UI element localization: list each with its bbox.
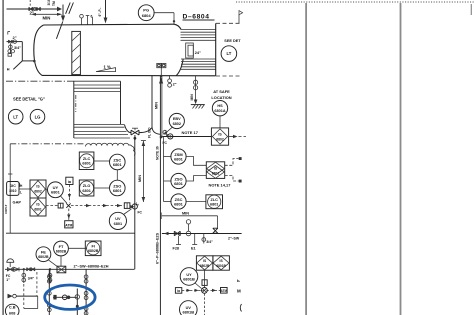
label NOTE 36 rotated (156, 146, 160, 160)
wire blowdown line (16, 296, 37, 309)
svg-text:6801: 6801 (174, 201, 184, 206)
wire sample cross line (53, 295, 77, 300)
svg-text:IS: IS (218, 133, 222, 137)
valve gate small (9, 40, 17, 43)
wire drain header (162, 232, 242, 236)
strainer box (57, 266, 66, 273)
dimension MIN vertical (138, 141, 146, 203)
svg-text:D–6804: D–6804 (183, 14, 210, 21)
svg-text:H: H (20, 184, 23, 188)
svg-text:AT SAFE: AT SAFE (213, 89, 230, 94)
svg-text:6"–P–6808B–E2S: 6"–P–6808B–E2S (155, 232, 159, 264)
svg-text:ia: ia (68, 180, 72, 184)
svg-text:6802B: 6802B (200, 264, 210, 268)
box ATM bottom (220, 288, 227, 294)
column separator line 2 (400, 3, 402, 315)
boot flange stack top (74, 81, 121, 91)
instrument LG (30, 109, 45, 124)
svg-text:6802B: 6802B (88, 249, 99, 253)
valve EBV ball (168, 134, 173, 139)
wire boot outlet curve (125, 125, 153, 133)
instrument FT 6802B (54, 241, 69, 256)
svg-text:ZLC: ZLC (211, 198, 219, 202)
valve ball pair b (8, 50, 15, 53)
relay IS 6802 bottom (196, 256, 213, 270)
right edge tick (470, 4, 472, 15)
instrument UY 6801 bottom (180, 268, 201, 289)
svg-text:FI: FI (92, 245, 95, 249)
relay ZLO 6801 (79, 180, 94, 196)
drain to grade (190, 76, 198, 104)
annotation blue ellipse (45, 285, 95, 309)
instrument ZSO 6801 left (110, 180, 126, 196)
svg-text:6801: 6801 (82, 162, 90, 166)
svg-text:6801B: 6801B (216, 264, 226, 268)
svg-text:3/4": 3/4" (206, 240, 213, 244)
instrument UV 6801 (109, 209, 131, 230)
svg-text:IS: IS (36, 203, 40, 207)
svg-text:3010: 3010 (9, 189, 17, 193)
instrument EBV 6802 (163, 113, 184, 135)
wire dashed down b (36, 272, 38, 296)
wire ZSC to ZLC (186, 201, 206, 203)
wire FT to strainer (60, 256, 62, 266)
wire double diagonal (66, 3, 74, 14)
box IA (66, 177, 73, 184)
glyph M right (237, 278, 241, 294)
nozzle thermowell stub a (80, 14, 84, 24)
wire relay out top (225, 157, 242, 165)
svg-text:6802: 6802 (216, 138, 224, 142)
wire MIN flow line (161, 211, 217, 229)
wire inlet pipe top (7, 7, 63, 12)
valve angle corner (213, 228, 218, 233)
svg-text:6801: 6801 (210, 203, 218, 207)
svg-text:ATM: ATM (65, 223, 72, 227)
wire dashed to ATM (67, 209, 70, 221)
instrument LT (8, 109, 23, 124)
valve ball a (9, 45, 22, 50)
svg-text:6804: 6804 (142, 13, 152, 18)
wire stem (9, 43, 11, 53)
svg-text:NOTE 17: NOTE 17 (182, 130, 199, 135)
label D-6804 (183, 14, 215, 21)
node X junction (66, 203, 70, 207)
svg-text:FT: FT (59, 244, 64, 249)
valve UV ball (132, 138, 142, 269)
wire to vessel (22, 60, 35, 63)
pipe main riser double line (160, 76, 162, 315)
svg-text:2"–SW–6800B–E2H: 2"–SW–6800B–E2H (74, 264, 109, 268)
label 2" (13, 35, 17, 40)
stub E1 (191, 234, 197, 251)
wire ZLC-ZSC (94, 160, 110, 162)
label AT SAFE LOCATION (211, 89, 231, 100)
svg-text:UV: UV (115, 217, 121, 221)
stub ball valves a (22, 269, 35, 283)
svg-text:2": 2" (173, 83, 177, 87)
controller DIC 3010 (7, 182, 23, 196)
node junction (160, 136, 163, 139)
label MIN rotated (155, 102, 159, 109)
svg-text:6801B: 6801B (183, 277, 195, 282)
svg-text:MIN: MIN (155, 102, 159, 109)
instrument UV 6801 bottom (180, 301, 198, 315)
page left border (2, 0, 4, 315)
wire dashed down vent (203, 293, 205, 315)
valve gate pair (27, 268, 35, 271)
nozzle stub b (86, 16, 90, 25)
svg-text:6801B: 6801B (182, 310, 194, 315)
valve check (14, 267, 19, 271)
stub F28 (173, 236, 182, 251)
wire branch line (7, 42, 23, 61)
instrument PG 6804 (138, 5, 154, 21)
svg-text:MIN: MIN (190, 94, 194, 101)
label FC 1" (6, 274, 11, 282)
wire dashed down a (23, 284, 25, 309)
stub ball valves b (48, 269, 52, 283)
nozzle arrow d (98, 0, 108, 24)
wire UY leader (61, 196, 67, 203)
wire left riser (8, 144, 12, 233)
svg-text:6802: 6802 (34, 189, 42, 193)
svg-text:HS: HS (217, 104, 223, 108)
svg-text:M: M (237, 289, 241, 294)
boot flange stack bottom (74, 124, 130, 138)
instrument ZSO 6801 (171, 173, 186, 188)
svg-text:PG: PG (143, 8, 149, 13)
wire riser sample a (47, 269, 51, 315)
vent nozzle 2" (168, 76, 177, 87)
instrument HS 6801A (212, 101, 227, 116)
svg-text:1": 1" (6, 278, 10, 282)
svg-text:ZLO: ZLO (83, 184, 91, 188)
slope marker 1% (96, 65, 116, 72)
svg-text:F28: F28 (173, 247, 180, 251)
svg-text:MIN: MIN (138, 175, 142, 182)
svg-text:6801: 6801 (174, 156, 184, 161)
fitting reducer (163, 130, 169, 136)
vessel shell (34, 24, 216, 76)
wire riser sample b (84, 269, 88, 315)
wire FT-FI (68, 247, 86, 249)
wire inlet drop into drum (61, 5, 65, 22)
vessel right end plate (215, 23, 217, 76)
svg-text:MIN: MIN (43, 15, 51, 20)
label 2" (30, 11, 35, 16)
centerline dash-dot (6, 80, 74, 82)
node boot tee (134, 135, 137, 140)
wire IS-UY (46, 189, 48, 191)
wire EBV branch (163, 136, 212, 138)
valve boot drain (131, 128, 139, 135)
wire switch riser (164, 137, 172, 202)
instrument ZSC 6801 left (110, 154, 126, 170)
svg-text:ZLC: ZLC (83, 157, 91, 161)
svg-text:6801: 6801 (174, 181, 184, 186)
svg-text:FL ISO: FL ISO (148, 127, 152, 138)
svg-text:2": 2" (135, 202, 139, 206)
svg-text:6801: 6801 (114, 222, 122, 226)
label pipe spec SW (74, 264, 109, 268)
label FL ISO rotated (148, 127, 152, 138)
instrument UY 6801 (48, 182, 64, 198)
demister pad (72, 31, 81, 74)
grade hatch (191, 105, 205, 109)
wire dashed signal right (71, 204, 124, 207)
vessel break dashes (216, 23, 240, 76)
svg-text:DIC: DIC (10, 184, 17, 188)
svg-text:EBV: EBV (173, 117, 181, 121)
relay FI 6802B (85, 241, 101, 256)
svg-text:MIN: MIN (182, 211, 189, 215)
svg-text:TM: TM (52, 1, 56, 6)
svg-text:SEE DET: SEE DET (224, 39, 241, 43)
svg-text:L: L (20, 190, 22, 194)
wire dashdot boundary (10, 143, 84, 145)
dimension MIN top (31, 13, 62, 20)
wire dashed signal left (19, 189, 58, 206)
svg-text:3/16: 3/16 (47, 0, 51, 6)
svg-text:IS: IS (203, 259, 207, 263)
instrument FE 6802B (36, 247, 51, 262)
instrument LT right (221, 46, 237, 62)
label pipe spec rotated (155, 232, 159, 264)
relay IS 6802 top (211, 128, 228, 145)
svg-text:ia: ia (177, 289, 180, 293)
relay IS 6801 double (206, 162, 224, 179)
vessel right cone lines (181, 30, 216, 41)
svg-text:LT: LT (13, 114, 18, 119)
valve 3/4 stub (202, 234, 213, 245)
svg-text:6802B: 6802B (56, 249, 67, 253)
label FC small (163, 141, 168, 145)
wire dashed stub up (29, 0, 31, 7)
fitting box (8, 54, 12, 57)
solenoid box bottom (202, 270, 207, 287)
fitting X circle (202, 288, 208, 294)
wire ZSC-ZSO vertical (116, 170, 118, 180)
label rotated gutter (4, 204, 8, 214)
relief hat (7, 259, 14, 267)
flow arrow up (159, 75, 163, 84)
revision cloud (86, 143, 136, 155)
wire dashed IA drop (68, 185, 71, 203)
relay IS 6801 bottom (213, 256, 230, 270)
box IA bottom (175, 288, 181, 294)
fitting circle (186, 220, 191, 236)
wire riser sample c (75, 289, 79, 315)
relay ZLC 6801 (79, 152, 94, 170)
svg-text:2": 2" (13, 35, 17, 40)
label NOTE 17 (182, 130, 199, 135)
valve V-top-a (29, 7, 33, 11)
svg-text:6: 6 (91, 15, 93, 19)
svg-text:LT: LT (226, 51, 231, 56)
column separator line 1 (305, 3, 307, 315)
wire long signal line (6, 232, 135, 234)
instrument ZSC 6801 (171, 194, 186, 209)
svg-text:6802: 6802 (173, 122, 181, 126)
wire arrow to valve (130, 205, 134, 208)
relay ZLC 6801 right (206, 195, 223, 209)
svg-text:3/4": 3/4" (14, 46, 21, 50)
solenoid box 2 (124, 203, 130, 209)
svg-text:6801: 6801 (212, 172, 220, 176)
svg-text:ATM: ATM (220, 289, 227, 293)
svg-text:IS: IS (36, 185, 40, 189)
glyph paren (240, 304, 241, 312)
svg-text:CRPLT: CRPLT (4, 204, 8, 214)
svg-text:ь: ь (237, 278, 240, 283)
svg-text:6801: 6801 (34, 207, 42, 211)
svg-text:NOTE 36: NOTE 36 (156, 146, 160, 160)
svg-text:IS: IS (220, 259, 224, 263)
boot body (74, 81, 121, 138)
valve V-top-b with circle (33, 7, 40, 11)
wire slope leader H (7, 61, 22, 72)
svg-text:6801: 6801 (113, 188, 123, 193)
svg-text:C.B: C.B (9, 306, 16, 310)
wire relay out bottom (225, 176, 242, 183)
relay IS 6802 diamond left (30, 180, 46, 216)
svg-text:E1: E1 (191, 247, 196, 251)
instrument CB (5, 304, 19, 315)
relay IS 6801 diamond left (31, 199, 46, 216)
svg-text:2"–SW: 2"–SW (228, 237, 240, 241)
wire FE leader (23, 260, 58, 271)
svg-text:6801: 6801 (51, 190, 61, 195)
solenoid box (58, 203, 63, 208)
instrument ZSM 6801 (171, 149, 186, 164)
box ATM (65, 221, 73, 228)
svg-text:6"–P–: 6"–P– (98, 7, 102, 16)
wire IS out right (229, 135, 246, 139)
wire ZLO-ZSO (94, 187, 110, 189)
svg-text:SEE DETAIL "G": SEE DETAIL "G" (13, 97, 45, 102)
flag connector (239, 11, 243, 24)
label SEE DETAIL G (13, 97, 45, 102)
valve drain a (174, 231, 180, 236)
svg-text:GAP: GAP (13, 200, 22, 205)
wire dash-dot boot (75, 95, 77, 112)
svg-text:6802B: 6802B (38, 255, 49, 259)
svg-text:FC: FC (138, 211, 143, 215)
svg-text:H: H (7, 68, 10, 72)
wire ZSM to relay (186, 157, 207, 166)
svg-text:3/4": 3/4" (28, 277, 35, 281)
tick mark (8, 32, 10, 35)
svg-text:LG: LG (35, 114, 41, 119)
label 2-SW right (228, 237, 240, 241)
svg-text:24": 24" (195, 51, 201, 55)
wire dashed vent line (182, 289, 221, 292)
vessel right tray lines (181, 59, 216, 69)
svg-text:6801A: 6801A (214, 109, 225, 113)
svg-text:608: 608 (9, 312, 15, 315)
wire PG to drum (154, 13, 175, 24)
inlet deflector (56, 22, 62, 39)
wire HS to IS (219, 116, 221, 128)
tiny rotated note (47, 0, 56, 6)
wire main sw pipe (5, 268, 135, 270)
label SEE DET right (224, 39, 241, 43)
nozzle stub c (91, 15, 93, 25)
svg-text:6801: 6801 (113, 162, 123, 167)
spectacle blind (157, 63, 166, 75)
nozzle 24" manway (186, 43, 201, 58)
svg-text:FE: FE (41, 250, 46, 255)
svg-text:6801: 6801 (82, 189, 90, 193)
wire ZSO to relay (186, 176, 207, 181)
label GAP (13, 200, 22, 205)
top dotted strip (236, 1, 474, 3)
pipe bypass leg (152, 76, 160, 134)
valve relief gate (7, 267, 12, 271)
label NOTE 14,17 (209, 183, 232, 188)
svg-text:NOTE 14,17: NOTE 14,17 (209, 183, 232, 188)
svg-text:LOCATION: LOCATION (211, 95, 231, 100)
valve blowdown filled (8, 294, 17, 299)
